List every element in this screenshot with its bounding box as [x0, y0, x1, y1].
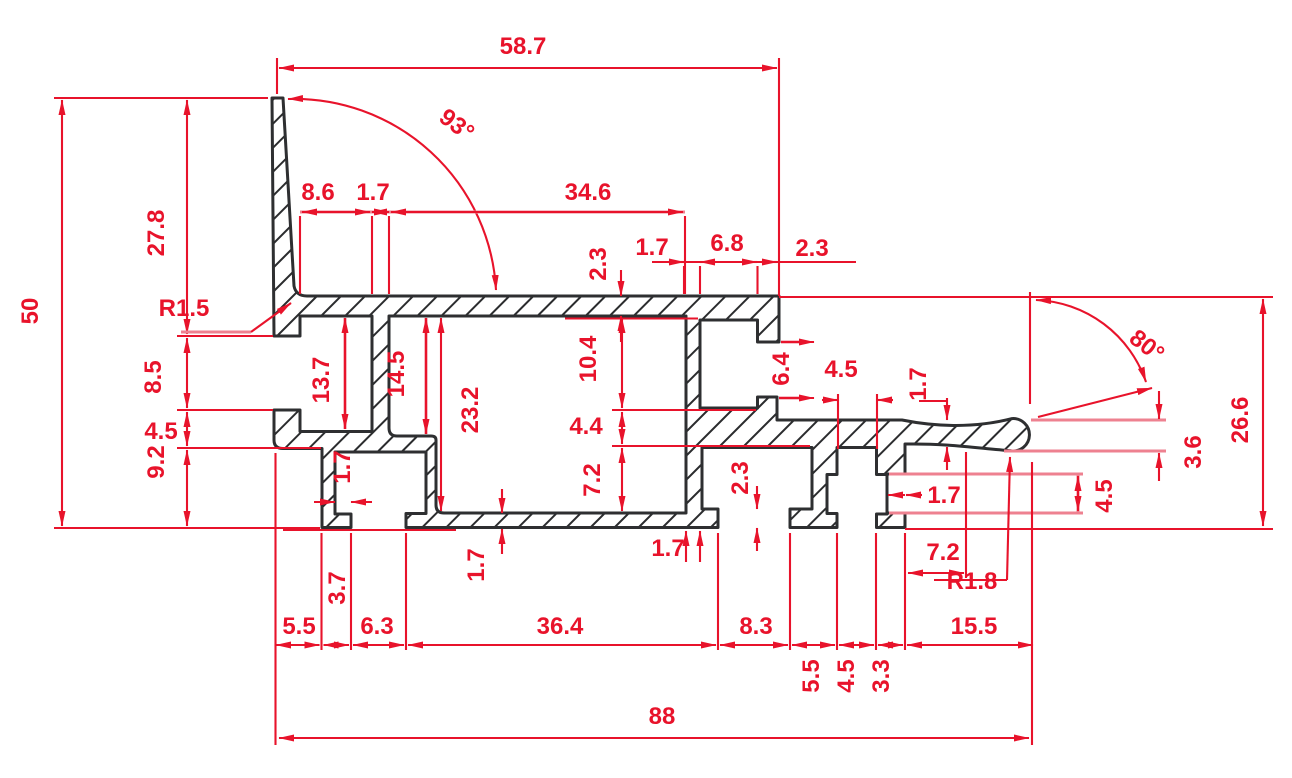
dimension 26.6 [1262, 299, 1264, 526]
svg-text:5.5: 5.5 [798, 659, 825, 692]
svg-text:1.7: 1.7 [635, 234, 668, 261]
svg-text:27.8: 27.8 [143, 210, 170, 257]
dimension 50 [61, 100, 63, 526]
svg-text:3.3: 3.3 [868, 659, 895, 692]
dimension 13.7 [344, 318, 347, 429]
svg-text:8.5: 8.5 [140, 360, 167, 393]
dimension 23.2 [440, 318, 442, 511]
profile outline with hatching [272, 98, 1029, 528]
dimension 8.5 [186, 338, 188, 408]
svg-text:1.7: 1.7 [927, 482, 960, 509]
svg-text:10.4: 10.4 [575, 335, 602, 382]
extension D y513 [889, 512, 1083, 515]
svg-text:34.6: 34.6 [565, 179, 612, 206]
extension y448 [177, 447, 321, 449]
svg-text:1.7: 1.7 [463, 548, 490, 581]
svg-text:36.4: 36.4 [537, 613, 584, 640]
svg-text:2.3: 2.3 [585, 247, 612, 280]
svg-text:7.2: 7.2 [926, 539, 959, 566]
svg-text:6.8: 6.8 [710, 230, 743, 257]
svg-text:14.5: 14.5 [383, 351, 410, 398]
svg-text:4.5: 4.5 [144, 418, 177, 445]
svg-text:4.5: 4.5 [1091, 479, 1118, 512]
svg-text:4.4: 4.4 [569, 413, 603, 440]
svg-text:23.2: 23.2 [457, 387, 484, 434]
svg-text:8.6: 8.6 [301, 179, 334, 206]
dimension 27.8 [186, 100, 188, 334]
bottom reference line right [905, 528, 1273, 530]
top reference line y297 [779, 296, 1273, 298]
svg-text:R1.8: R1.8 [947, 568, 998, 595]
tangent line A y420 [1031, 419, 1166, 422]
svg-text:58.7: 58.7 [500, 33, 547, 60]
svg-text:1.7: 1.7 [356, 179, 389, 206]
dimension 9.2 [186, 450, 188, 526]
extension line y98 left [54, 97, 268, 99]
svg-text:1.7: 1.7 [905, 367, 932, 400]
svg-text:4.5: 4.5 [833, 659, 860, 692]
svg-text:R1.5: R1.5 [159, 295, 210, 322]
svg-text:15.5: 15.5 [951, 613, 998, 640]
svg-text:88: 88 [649, 703, 676, 730]
dimension row 8.6 / 1.7 / 34.6 [300, 211, 685, 214]
svg-text:6.3: 6.3 [360, 613, 393, 640]
svg-text:5.5: 5.5 [282, 613, 315, 640]
svg-text:6.4: 6.4 [768, 352, 795, 386]
svg-text:26.6: 26.6 [1227, 397, 1254, 444]
leader R1.5 [181, 331, 251, 334]
dimension 14.5 [425, 318, 428, 434]
dimension 4.5 right [1077, 474, 1080, 513]
dimension stack 10.4 / 4.4 / 7.2 [621, 318, 623, 408]
extension y528 bottom-left [54, 527, 320, 529]
svg-text:2.3: 2.3 [795, 235, 828, 262]
svg-text:13.7: 13.7 [308, 357, 335, 404]
dimension row 1.7 / 6.8 / 2.3 top right [652, 261, 856, 263]
svg-text:3.7: 3.7 [324, 571, 351, 604]
svg-text:7.2: 7.2 [579, 463, 606, 496]
tangent line B y451 [1004, 450, 1166, 453]
svg-text:9.2: 9.2 [143, 445, 170, 478]
svg-text:1.7: 1.7 [651, 535, 684, 562]
svg-text:1.7: 1.7 [329, 450, 356, 483]
extension C y474 [889, 473, 1083, 476]
dimension 58.7 top [279, 67, 777, 69]
extension y410 [177, 409, 273, 411]
svg-text:3.6: 3.6 [1180, 435, 1207, 468]
dimension 4.5 left [186, 412, 188, 446]
extension y336 [177, 335, 273, 337]
svg-text:8.3: 8.3 [739, 613, 772, 640]
bottom dimension chain [276, 644, 320, 646]
angular dimension 93 deg arc [288, 99, 496, 290]
svg-text:2.3: 2.3 [727, 461, 754, 494]
svg-text:4.5: 4.5 [824, 356, 857, 383]
dimension 88 [279, 737, 1029, 739]
dimension 2.3 plate thickness [620, 270, 622, 296]
angular dimension 80 deg [1036, 300, 1146, 382]
svg-text:50: 50 [17, 298, 44, 325]
bottom chain extension lines [274, 453, 276, 745]
